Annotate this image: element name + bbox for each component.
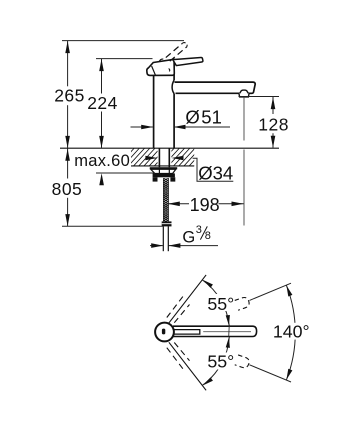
cone inner shank lines	[158, 169, 160, 173]
dim 224 line	[101, 59, 103, 94]
dim O51 right leader	[174, 126, 230, 128]
aerator center line	[243, 97, 245, 141]
washer plate	[150, 167, 177, 169]
svg-text:265: 265	[54, 86, 85, 106]
svg-text:3: 3	[196, 224, 202, 236]
G3/8 leader right	[169, 245, 218, 247]
head nub separation	[152, 66, 156, 75]
shank wall right	[168, 148, 170, 167]
text knockouts	[206, 294, 235, 311]
spout bar plan	[173, 326, 257, 336]
lever handle raised dashed edge 2	[170, 47, 187, 62]
bracket leg right	[170, 177, 175, 181]
dim 198 line left	[168, 203, 190, 205]
lever plan inner	[174, 330, 200, 335]
dashed spout tip top	[235, 296, 251, 310]
55 arc arrows	[226, 315, 231, 326]
spout center line	[203, 331, 251, 333]
lever slot	[162, 329, 165, 335]
aerator	[239, 90, 249, 97]
swivel 140 arc	[286, 285, 295, 380]
svg-text:55°: 55°	[207, 294, 234, 314]
lever handle solid	[173, 57, 203, 65]
counter hatch right	[158, 148, 210, 166]
shank wall left	[158, 148, 160, 167]
dim O34 leader	[193, 158, 234, 181]
spout arm	[175, 82, 256, 93]
max.60 underside line	[96, 172, 155, 174]
svg-text:805: 805	[52, 179, 83, 199]
swivel 55 arc top	[203, 280, 230, 326]
faucet body column	[153, 75, 155, 148]
swivel limit line bottom	[169, 342, 206, 390]
bracket leg left	[153, 177, 158, 181]
head tick 1	[159, 59, 163, 61]
hose connector nut	[162, 221, 172, 226]
dim 805 line	[67, 149, 69, 179]
55 arc crossing bar	[228, 326, 231, 336]
140 arc arrows	[284, 285, 292, 297]
svg-text:Ø34: Ø34	[198, 163, 233, 184]
counter top line	[60, 147, 279, 149]
swivel limit line top	[169, 275, 206, 323]
dashed spout tip bottom	[235, 355, 251, 369]
faucet base circle	[155, 323, 174, 342]
threaded rod	[164, 178, 168, 222]
dim 128 line	[272, 97, 274, 114]
swivel 55 arc bottom	[203, 337, 230, 385]
spout root arc	[172, 80, 174, 93]
svg-text:8: 8	[205, 230, 211, 242]
dashed spout edge bottom 2	[174, 343, 189, 361]
supply tube	[162, 226, 164, 251]
lever handle raised dashed edge 1	[166, 43, 183, 57]
dim 805 bottom line	[62, 225, 163, 227]
lever raised end cap dashed	[182, 43, 187, 47]
counter underside line	[131, 165, 194, 167]
dim O51 left arrow	[131, 126, 153, 128]
dashed spout edge top 1	[167, 295, 184, 318]
svg-text:128: 128	[258, 114, 289, 134]
dim 224 extension line	[96, 58, 153, 60]
counter hatch left	[118, 148, 170, 166]
extension line top	[250, 283, 292, 300]
dim 198 line right	[219, 203, 244, 205]
dim 265 line	[67, 41, 69, 86]
mounting nut	[153, 173, 175, 177]
dashed spout edge top 2	[174, 305, 189, 323]
svg-text:140°: 140°	[273, 322, 310, 342]
svg-text:224: 224	[87, 93, 118, 113]
svg-text:55°: 55°	[207, 352, 234, 372]
cartridge head	[147, 59, 175, 75]
dim 128 extension line	[239, 96, 280, 98]
G3/8 leader left	[150, 245, 163, 247]
cone washer	[151, 169, 176, 173]
svg-text:Ø51: Ø51	[185, 106, 221, 127]
dashed spout edge bottom 1	[167, 348, 184, 371]
svg-text:max.60: max.60	[74, 152, 130, 170]
head tick 2	[169, 69, 170, 72]
dim 265 extension line	[62, 40, 184, 42]
svg-text:198: 198	[190, 195, 220, 215]
extension line bottom	[250, 365, 292, 382]
svg-text:G: G	[182, 228, 195, 246]
hole width arrows	[145, 156, 157, 161]
